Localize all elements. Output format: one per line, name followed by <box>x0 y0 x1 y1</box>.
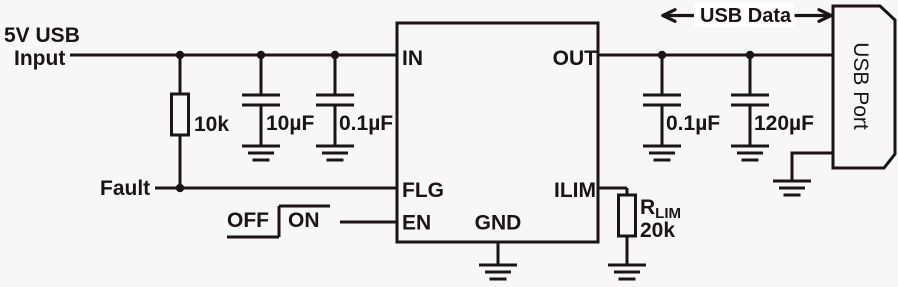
capacitor C2 0.1uF plates <box>316 94 354 97</box>
USB data right arrow <box>796 10 831 22</box>
svg-text:0.1µF: 0.1µF <box>666 112 720 135</box>
capacitor C4 bottom wire <box>749 105 752 146</box>
USB data left arrow <box>663 10 694 22</box>
junction node fault/R1 <box>176 184 184 192</box>
svg-text:IN: IN <box>402 47 423 70</box>
wire OUT pin to USB port <box>598 54 833 57</box>
resistor R1 10k body <box>172 94 189 135</box>
wire ILIM to resistor R2 top <box>626 188 629 195</box>
wire input 5V to IN pin <box>70 54 397 57</box>
capacitor C4 120uF top wire <box>749 55 752 94</box>
capacitor C3 bottom wire <box>661 105 664 146</box>
ground below C4 <box>731 145 769 148</box>
capacitor C3 0.1uF top wire <box>661 55 664 94</box>
OFF/ON step waveform low segment <box>227 236 279 239</box>
ground below C3 <box>643 145 681 148</box>
svg-text:ON: ON <box>288 209 320 232</box>
svg-text:0.1µF: 0.1µF <box>339 112 393 135</box>
svg-text:OUT: OUT <box>553 47 598 70</box>
resistor R2 RLIM 20k body <box>619 195 636 236</box>
junction node out/C3 <box>658 51 666 59</box>
svg-text:GND: GND <box>475 212 522 235</box>
capacitor C4 120uF plates <box>731 94 769 97</box>
ground below R2 <box>608 264 646 267</box>
wire GND pin <box>497 242 500 265</box>
junction node input/C2 <box>331 51 339 59</box>
OFF/ON step waveform high segment <box>279 205 330 208</box>
wire ILIM pin horizontal <box>598 187 627 190</box>
ground below C2 <box>316 145 354 148</box>
svg-text:10k: 10k <box>194 113 229 136</box>
ground below USB port <box>773 180 811 183</box>
svg-text:120µF: 120µF <box>754 112 814 135</box>
capacitor C3 0.1uF plates <box>643 94 681 97</box>
svg-text:USB Port: USB Port <box>849 42 872 130</box>
white backing behind USB Data <box>694 3 794 27</box>
junction node out/C4 <box>746 51 754 59</box>
svg-text:Input: Input <box>14 47 65 70</box>
svg-text:5V USB: 5V USB <box>4 24 80 47</box>
capacitor C2 bottom wire <box>334 105 337 146</box>
wire resistor R1 top <box>179 55 182 94</box>
svg-text:Fault: Fault <box>100 177 150 200</box>
wire resistor R1 bottom to fault net <box>179 135 182 188</box>
wire fault net to FLG pin <box>155 187 397 190</box>
wire EN pin <box>340 221 397 224</box>
junction node input/C1 <box>257 51 265 59</box>
svg-text:FLG: FLG <box>402 179 444 202</box>
USB port connector body <box>833 6 895 168</box>
wire resistor R2 bottom <box>626 236 629 265</box>
ground below C1 <box>242 145 280 148</box>
svg-text:ILIM: ILIM <box>554 179 596 202</box>
op-amp U1 power switch IC body <box>397 23 598 242</box>
OFF/ON step waveform rising edge <box>278 206 281 237</box>
svg-text:20k: 20k <box>640 219 675 242</box>
capacitor C1 10uF plates <box>242 94 280 97</box>
capacitor C2 0.1uF top wire <box>334 55 337 94</box>
svg-text:OFF: OFF <box>227 209 269 232</box>
junction node input/R1 <box>176 51 184 59</box>
svg-text:USB Data: USB Data <box>700 5 792 27</box>
capacitor C1 10uF top wire <box>260 55 263 94</box>
svg-text:EN: EN <box>402 212 431 235</box>
svg-text:10µF: 10µF <box>266 112 314 135</box>
capacitor C1 bottom wire <box>260 105 263 146</box>
ground below GND pin <box>479 264 517 267</box>
wire USB port ground <box>792 153 833 181</box>
